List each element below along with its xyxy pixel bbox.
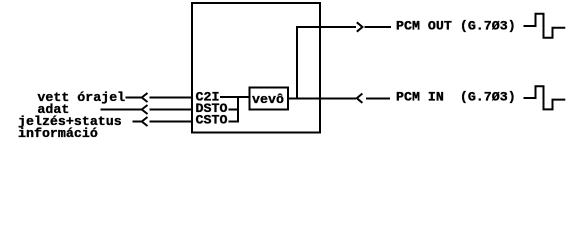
- svg-text:információ: információ: [18, 126, 98, 141]
- svg-text:PCM OUT (G.7Ø3): PCM OUT (G.7Ø3): [396, 19, 516, 34]
- svg-text:PCM IN (G.7Ø3): PCM IN (G.7Ø3): [396, 90, 516, 105]
- svg-text:CSTO: CSTO: [196, 112, 228, 127]
- svg-text:vevô: vevô: [252, 92, 284, 107]
